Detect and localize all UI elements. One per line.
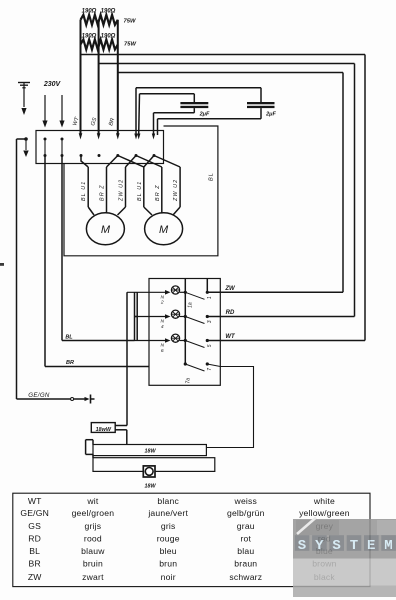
svg-text:M: M: [159, 224, 169, 236]
svg-text:BR: BR: [29, 559, 41, 569]
svg-text:ZW U2: ZW U2: [173, 179, 179, 202]
svg-text:75W: 75W: [124, 42, 136, 48]
svg-text:3: 3: [207, 320, 213, 323]
svg-text:jaune/vert: jaune/vert: [147, 508, 188, 518]
svg-text:ZW: ZW: [28, 572, 42, 582]
svg-text:braun: braun: [234, 559, 257, 569]
svg-text:RD: RD: [28, 533, 41, 543]
svg-text:M: M: [101, 224, 111, 236]
svg-text:rouge: rouge: [157, 533, 180, 543]
svg-text:geel/groen: geel/groen: [72, 508, 115, 518]
svg-text:190Ω: 190Ω: [101, 9, 116, 15]
svg-text:ZW U2: ZW U2: [119, 179, 125, 202]
svg-text:RD: RD: [226, 310, 235, 316]
svg-text:18W: 18W: [144, 484, 156, 490]
svg-text:noir: noir: [161, 572, 176, 582]
svg-text:BL U1: BL U1: [81, 181, 87, 201]
svg-text:schwarz: schwarz: [229, 572, 262, 582]
svg-text:190Ω: 190Ω: [82, 9, 97, 15]
svg-text:white: white: [313, 496, 335, 506]
svg-text:T: T: [350, 538, 358, 554]
svg-text:WT: WT: [72, 116, 81, 127]
svg-text:N: N: [161, 319, 165, 325]
svg-text:230V: 230V: [43, 81, 62, 88]
svg-text:brun: brun: [159, 559, 177, 569]
svg-text:GE/GN: GE/GN: [20, 508, 49, 518]
svg-text:zwart: zwart: [82, 572, 104, 582]
svg-text:WT: WT: [28, 496, 42, 506]
svg-text:S: S: [298, 538, 306, 554]
svg-text:gris: gris: [161, 521, 176, 531]
svg-text:18wW: 18wW: [96, 427, 112, 433]
svg-text:BL U1: BL U1: [137, 181, 143, 201]
svg-text:1a: 1a: [188, 302, 194, 308]
svg-text:E: E: [367, 538, 375, 554]
svg-text:7: 7: [207, 368, 213, 371]
svg-text:blau: blau: [237, 546, 254, 556]
svg-text:75W: 75W: [124, 19, 136, 25]
svg-text:bleu: bleu: [160, 546, 177, 556]
svg-text:BR Z: BR Z: [155, 184, 161, 201]
svg-text:N: N: [161, 343, 165, 349]
svg-text:S: S: [332, 538, 340, 554]
svg-text:rood: rood: [84, 533, 102, 543]
svg-text:BL: BL: [65, 335, 73, 341]
svg-text:grau: grau: [237, 521, 255, 531]
svg-text:BL: BL: [29, 546, 40, 556]
svg-text:blauw: blauw: [81, 546, 105, 556]
svg-text:7a: 7a: [186, 378, 192, 384]
svg-text:2μF: 2μF: [265, 112, 276, 118]
svg-text:5: 5: [207, 344, 213, 347]
svg-text:gelb/grün: gelb/grün: [227, 508, 265, 518]
svg-text:GS: GS: [28, 521, 41, 531]
svg-text:190Ω: 190Ω: [101, 34, 116, 40]
svg-text:18W: 18W: [144, 448, 156, 454]
svg-text:N: N: [161, 295, 165, 301]
svg-text:6: 6: [161, 348, 164, 354]
svg-text:ZW: ZW: [224, 286, 236, 292]
svg-text:blanc: blanc: [157, 496, 179, 506]
svg-text:BR: BR: [66, 360, 74, 366]
svg-text:Y: Y: [315, 538, 324, 554]
svg-text:BR: BR: [108, 117, 116, 126]
svg-text:M: M: [384, 538, 392, 554]
svg-text:yellow/green: yellow/green: [299, 508, 350, 518]
svg-text:rot: rot: [240, 533, 251, 543]
svg-text:BL: BL: [209, 172, 215, 181]
svg-text:WT: WT: [225, 334, 236, 340]
svg-text:wit: wit: [86, 496, 99, 506]
svg-text:BR Z: BR Z: [100, 184, 106, 201]
svg-text:GS: GS: [90, 117, 98, 127]
svg-text:bruin: bruin: [83, 559, 103, 569]
svg-text:weiss: weiss: [234, 496, 258, 506]
svg-text:190Ω: 190Ω: [82, 34, 97, 40]
svg-text:1: 1: [207, 296, 213, 299]
svg-text:grijs: grijs: [85, 521, 102, 531]
svg-text:GE/GN: GE/GN: [28, 392, 50, 399]
svg-text:4: 4: [161, 324, 164, 330]
svg-text:2: 2: [160, 300, 164, 306]
svg-text:2μF: 2μF: [199, 112, 210, 118]
